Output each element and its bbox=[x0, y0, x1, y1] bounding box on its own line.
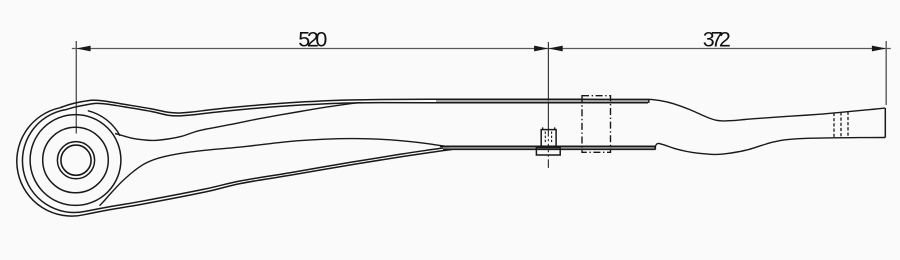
rolled leaf wrap inner arc bbox=[22, 110, 85, 213]
spring eye inner bore circle bbox=[61, 145, 91, 175]
center bolt head bbox=[541, 130, 556, 147]
top right taper line bbox=[649, 99, 885, 121]
bottom right taper line bbox=[655, 138, 886, 155]
right end face bbox=[884, 108, 886, 138]
bolt shank hidden lines bbox=[545, 132, 551, 143]
center bolt washer/nut bbox=[536, 148, 560, 155]
bolt head corner ticks bbox=[543, 127, 555, 129]
hidden line 2 at right end bbox=[840, 112, 842, 137]
spring eye bushing inner ring bbox=[57, 142, 94, 179]
second leaf top curve C1 bbox=[100, 139, 450, 206]
second leaf bottom line C2 upper stroke bbox=[85, 147, 449, 211]
arrowhead at right extension (points right) bbox=[872, 46, 886, 52]
leaf top surface line bbox=[60, 99, 649, 113]
center section bottom band lower stroke bbox=[443, 148, 656, 150]
rolled leaf wrap outer arc bbox=[17, 108, 84, 216]
dimension line 520/372 bbox=[72, 48, 891, 50]
top band end cap bbox=[648, 99, 650, 103]
center band soft fill bottom bbox=[443, 147, 654, 149]
extension line right bbox=[885, 41, 887, 105]
svg-text:372: 372 bbox=[703, 28, 731, 52]
axle pad phantom rectangle bbox=[582, 96, 611, 153]
hidden line 3 at right end bbox=[847, 112, 849, 138]
center band soft fill top bbox=[436, 100, 648, 102]
extension line left bbox=[75, 41, 77, 134]
extension line middle (center bolt axis) bbox=[547, 42, 549, 128]
spring eye circle (inside of rolled leaf) bbox=[30, 115, 121, 206]
wrap end tuck line bbox=[88, 111, 120, 136]
arrowheads at middle extension bbox=[534, 46, 548, 52]
hidden line 1 at right end bbox=[833, 113, 835, 138]
center bolt dash-dot centerline bbox=[547, 128, 549, 169]
second leaf bottom line C2 lower stroke bbox=[84, 150, 453, 215]
spring eye bushing outer circle bbox=[43, 127, 109, 193]
arrowhead at left extension (points left) bbox=[76, 46, 90, 52]
leaf under-surface near eye (mid line) bbox=[115, 103, 362, 141]
center section bottom band upper stroke bbox=[440, 145, 655, 147]
svg-text:520: 520 bbox=[298, 27, 327, 51]
leaf top lower stroke bbox=[65, 103, 648, 116]
bottom band end cap bbox=[654, 146, 656, 149]
